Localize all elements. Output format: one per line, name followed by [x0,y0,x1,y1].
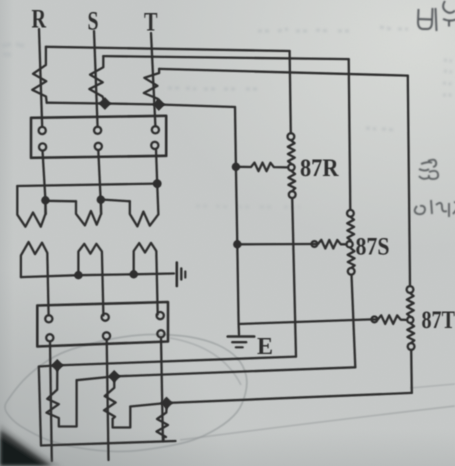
relay 87T restraint coil upper [407,293,414,317]
wire T2 tap to 87T bottom [167,393,412,403]
relay 87T terminal circles [407,286,414,293]
pencil tail stroke [180,406,455,440]
relay 87S coil terminal circle [312,241,318,247]
pencil ellipse around lower section [5,335,247,452]
phase line T [151,33,155,126]
box1 terminal circles top row [39,127,46,134]
pencil ellipse second pass arc [170,338,241,385]
junction T CT common [152,98,165,111]
phase line T2 below box2 [161,337,163,441]
phase line R box1 to delta [43,151,46,215]
bleed row top [258,27,408,31]
wire CT-T top to relay 87T [159,69,408,76]
earth electrode symbol E (bus ground) [228,335,255,338]
handwriting right margin 1 [419,160,438,179]
wire CT2-R2 end to S2 tap [77,376,115,380]
CT2 R2 winding [47,367,77,427]
box2 terminal circles top row [45,315,52,322]
relay 87R bottom lead [292,198,296,357]
page corner dark wedge [0,430,52,466]
relay 87T coil terminal circle [372,317,378,323]
bottom return bus [41,441,176,446]
wire CT-R top to relay 87R [46,47,290,51]
relay 87R restraint coil upper [288,140,295,164]
CT secondary winding T (zigzag) [144,69,159,104]
phase line T box1 to delta [156,149,158,214]
relay 87S operating coil [237,240,346,249]
relay 87S restraint coil lower [348,248,355,268]
wire CT-S top to relay 87S [103,56,348,59]
CT secondary winding S (zigzag) [89,56,105,102]
wye winding 1 (M shape R) [21,242,49,316]
wye neutral wire to earth [21,274,174,278]
junction T2 tap [160,397,173,410]
junction bus 87S [233,240,241,248]
relay 87S vertical lead top [349,59,351,210]
phase line S2 below box2 [107,340,109,461]
bleed row mid-left [168,88,260,89]
relay 87T operating coil [239,315,407,324]
CT secondary winding R (zigzag) [32,47,47,103]
wire CT commons to bus [47,103,235,107]
CT2 T2 winding [157,405,169,442]
wire R2 tap to 87R bottom [57,357,296,366]
junction S CT common [99,97,112,110]
wire R node to delta winding 2 [45,200,76,203]
delta winding wire T-phase long [17,184,157,186]
bleed row under wire [196,206,300,207]
CT2 S2 winding [104,378,130,428]
bleed right column [366,128,394,130]
phase line R [39,29,42,127]
box2 terminal circles bottom row [46,334,53,341]
relay 87R vertical lead top [290,51,291,133]
relay 87T restraint coil lower [407,323,414,343]
bleed left edge block [2,44,24,55]
phase line R2 below box2 [50,342,52,462]
relay 87T vertical lead top [408,76,410,287]
handwritten hangul top right [418,8,433,29]
relay 87R terminal circles [288,133,295,140]
junction T delta [153,179,162,188]
relay 87S bottom lead [352,275,356,368]
earth electrode symbol (neutral) [176,263,179,287]
junction S2 tap [108,370,121,383]
wire CT2-S2 end to T2 tap [130,403,166,407]
box transformer primary (box1) [31,116,166,158]
box1 terminal circles bottom row [39,143,46,150]
relay 87S restraint coil upper [347,217,354,241]
handwriting right margin 2 [415,200,455,217]
relay 87T bottom lead [410,350,413,393]
delta winding 2 (S) [76,201,101,226]
relay 87R operating coil [236,163,288,172]
restraint bus vertical [235,107,239,335]
pencil stroke right [410,384,455,388]
wire S2 tap to 87S bottom [114,367,355,376]
junction S delta [97,196,105,204]
junction R2 tap [51,359,64,372]
phase line S [94,31,98,127]
relay 87S terminal circles [347,210,354,217]
junction R delta [41,196,49,204]
box transformer secondary (box2) [37,302,168,347]
wire S node to delta winding 3 [101,200,130,202]
wye winding 2 (M shape S) [78,244,103,316]
junction wye S neutral [74,271,82,279]
delta winding 3 (T) [130,201,159,226]
phase line S box1 to delta [98,150,101,214]
relay 87R restraint coil lower [288,171,295,191]
delta winding 1 (R) [17,186,45,227]
junction bus 87R [232,163,240,171]
wire R2 tap to left return [39,365,58,445]
junction wye T neutral [130,270,138,278]
wye winding 3 (M shape T) [134,243,158,315]
